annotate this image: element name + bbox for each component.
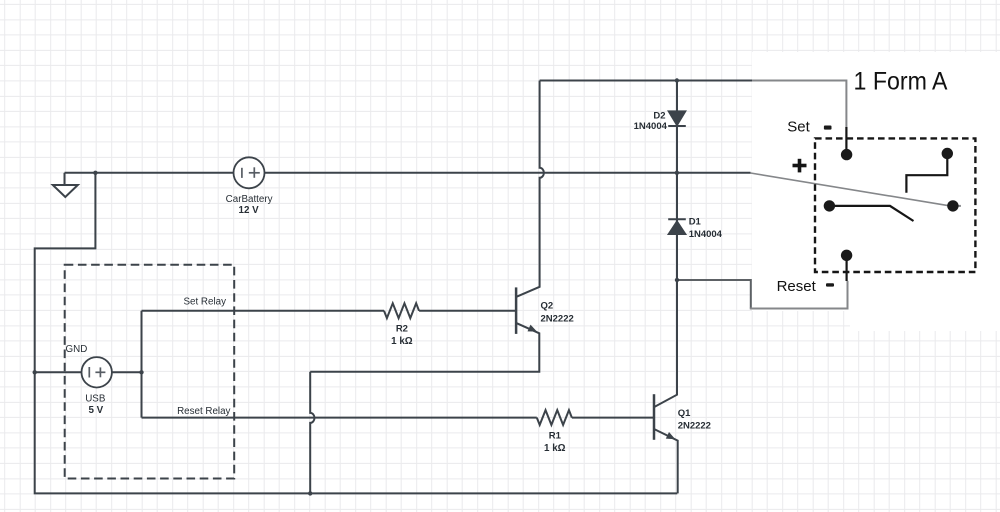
svg-text:5 V: 5 V	[88, 405, 103, 416]
svg-text:1 Form A: 1 Form A	[854, 68, 948, 96]
svg-text:USB: USB	[85, 394, 106, 405]
svg-text:R1: R1	[549, 431, 562, 442]
svg-text:D1: D1	[689, 217, 702, 228]
svg-text:Q2: Q2	[541, 301, 554, 312]
svg-text:Q1: Q1	[678, 408, 691, 419]
svg-text:Set Relay: Set Relay	[184, 296, 227, 307]
svg-text:2N2222: 2N2222	[541, 313, 574, 324]
svg-text:2N2222: 2N2222	[678, 420, 711, 431]
svg-text:R2: R2	[396, 324, 408, 335]
svg-text:Set: Set	[787, 119, 810, 136]
svg-text:CarBattery: CarBattery	[226, 194, 273, 205]
svg-text:Reset: Reset	[777, 278, 817, 295]
svg-text:1 kΩ: 1 kΩ	[544, 443, 566, 454]
svg-text:GND: GND	[66, 344, 88, 355]
svg-text:1 kΩ: 1 kΩ	[391, 336, 413, 347]
svg-text:1N4004: 1N4004	[689, 229, 723, 240]
svg-text:1N4004: 1N4004	[634, 121, 668, 132]
svg-text:Reset Relay: Reset Relay	[177, 406, 230, 417]
svg-text:D2: D2	[653, 111, 665, 122]
svg-text:12 V: 12 V	[239, 205, 260, 216]
